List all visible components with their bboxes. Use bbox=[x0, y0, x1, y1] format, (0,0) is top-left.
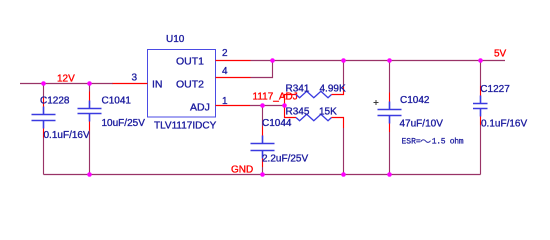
junction 12V / C1041 bbox=[87, 81, 92, 86]
svg-text:2: 2 bbox=[222, 48, 228, 59]
svg-text:C1042: C1042 bbox=[400, 95, 430, 106]
regulator U10 bbox=[113, 34, 251, 132]
svg-text:12V: 12V bbox=[57, 74, 75, 85]
svg-text:ESR=: ESR= bbox=[402, 138, 421, 147]
pin 3 bbox=[113, 83, 148, 85]
svg-text:C1041: C1041 bbox=[102, 95, 132, 106]
junction GND / C1042 bbox=[387, 172, 392, 177]
junction top wire / R341 bbox=[341, 58, 346, 63]
capacitor C1042 polarized bbox=[374, 61, 464, 175]
wire GND horizontal bbox=[44, 174, 481, 176]
svg-text:C1227: C1227 bbox=[480, 84, 510, 95]
svg-text:IN: IN bbox=[152, 79, 163, 91]
svg-text:0.1uF/16V: 0.1uF/16V bbox=[481, 119, 527, 130]
resistor R345 bbox=[285, 106, 344, 175]
svg-text:4.99K: 4.99K bbox=[320, 84, 346, 95]
svg-text:C1228: C1228 bbox=[40, 96, 70, 107]
junction 12V / C1228 bbox=[41, 81, 46, 86]
svg-text:ADJ: ADJ bbox=[190, 102, 210, 114]
svg-text:15K: 15K bbox=[319, 107, 337, 118]
pin 1 bbox=[216, 105, 251, 107]
junction ADJ / resistors bbox=[282, 103, 287, 108]
svg-text:R341: R341 bbox=[286, 84, 310, 95]
junction top wire / C1042 bbox=[387, 58, 392, 63]
svg-text:TLV1117IDCY: TLV1117IDCY bbox=[154, 121, 217, 132]
wire ADJ net horizontal bbox=[250, 105, 285, 107]
svg-text:5V: 5V bbox=[494, 48, 507, 59]
svg-text:0.1uF/16V: 0.1uF/16V bbox=[44, 130, 90, 141]
svg-text:47uF/10V: 47uF/10V bbox=[400, 119, 444, 130]
junction GND / C1044 bbox=[260, 172, 265, 177]
svg-text:R345: R345 bbox=[286, 107, 310, 118]
svg-text:GND: GND bbox=[231, 164, 253, 175]
capacitor C1041 bbox=[78, 84, 146, 175]
svg-text:2.2uF/25V: 2.2uF/25V bbox=[262, 154, 308, 165]
junction ADJ / C1044 bbox=[260, 103, 265, 108]
wire OUT2 to OUT1 net bbox=[251, 61, 273, 78]
svg-text:4: 4 bbox=[222, 66, 228, 77]
svg-text:1: 1 bbox=[222, 96, 228, 107]
capacitor C1228 bbox=[32, 84, 90, 175]
junction GND / R345 bbox=[341, 172, 346, 177]
junction top wire / OUT2 bbox=[270, 58, 275, 63]
svg-text:1.5 ohm: 1.5 ohm bbox=[432, 138, 464, 147]
svg-text:C1044: C1044 bbox=[262, 118, 292, 129]
svg-text:3: 3 bbox=[132, 73, 138, 84]
junction GND / C1041 bbox=[87, 172, 92, 177]
pin 2 bbox=[216, 60, 251, 62]
wire 12V horizontal bbox=[20, 83, 113, 85]
svg-text:U10: U10 bbox=[166, 34, 185, 45]
junction top wire / C1227 bbox=[478, 58, 483, 63]
pin 4 bbox=[216, 77, 251, 79]
svg-text:OUT1: OUT1 bbox=[176, 56, 204, 68]
svg-text:10uF/25V: 10uF/25V bbox=[102, 118, 146, 129]
capacitor C1044 bbox=[251, 106, 309, 175]
svg-text:OUT2: OUT2 bbox=[176, 79, 204, 91]
wire 5V top horizontal bbox=[251, 60, 506, 62]
capacitor C1227 bbox=[473, 61, 527, 175]
resistor R341 bbox=[285, 61, 346, 106]
